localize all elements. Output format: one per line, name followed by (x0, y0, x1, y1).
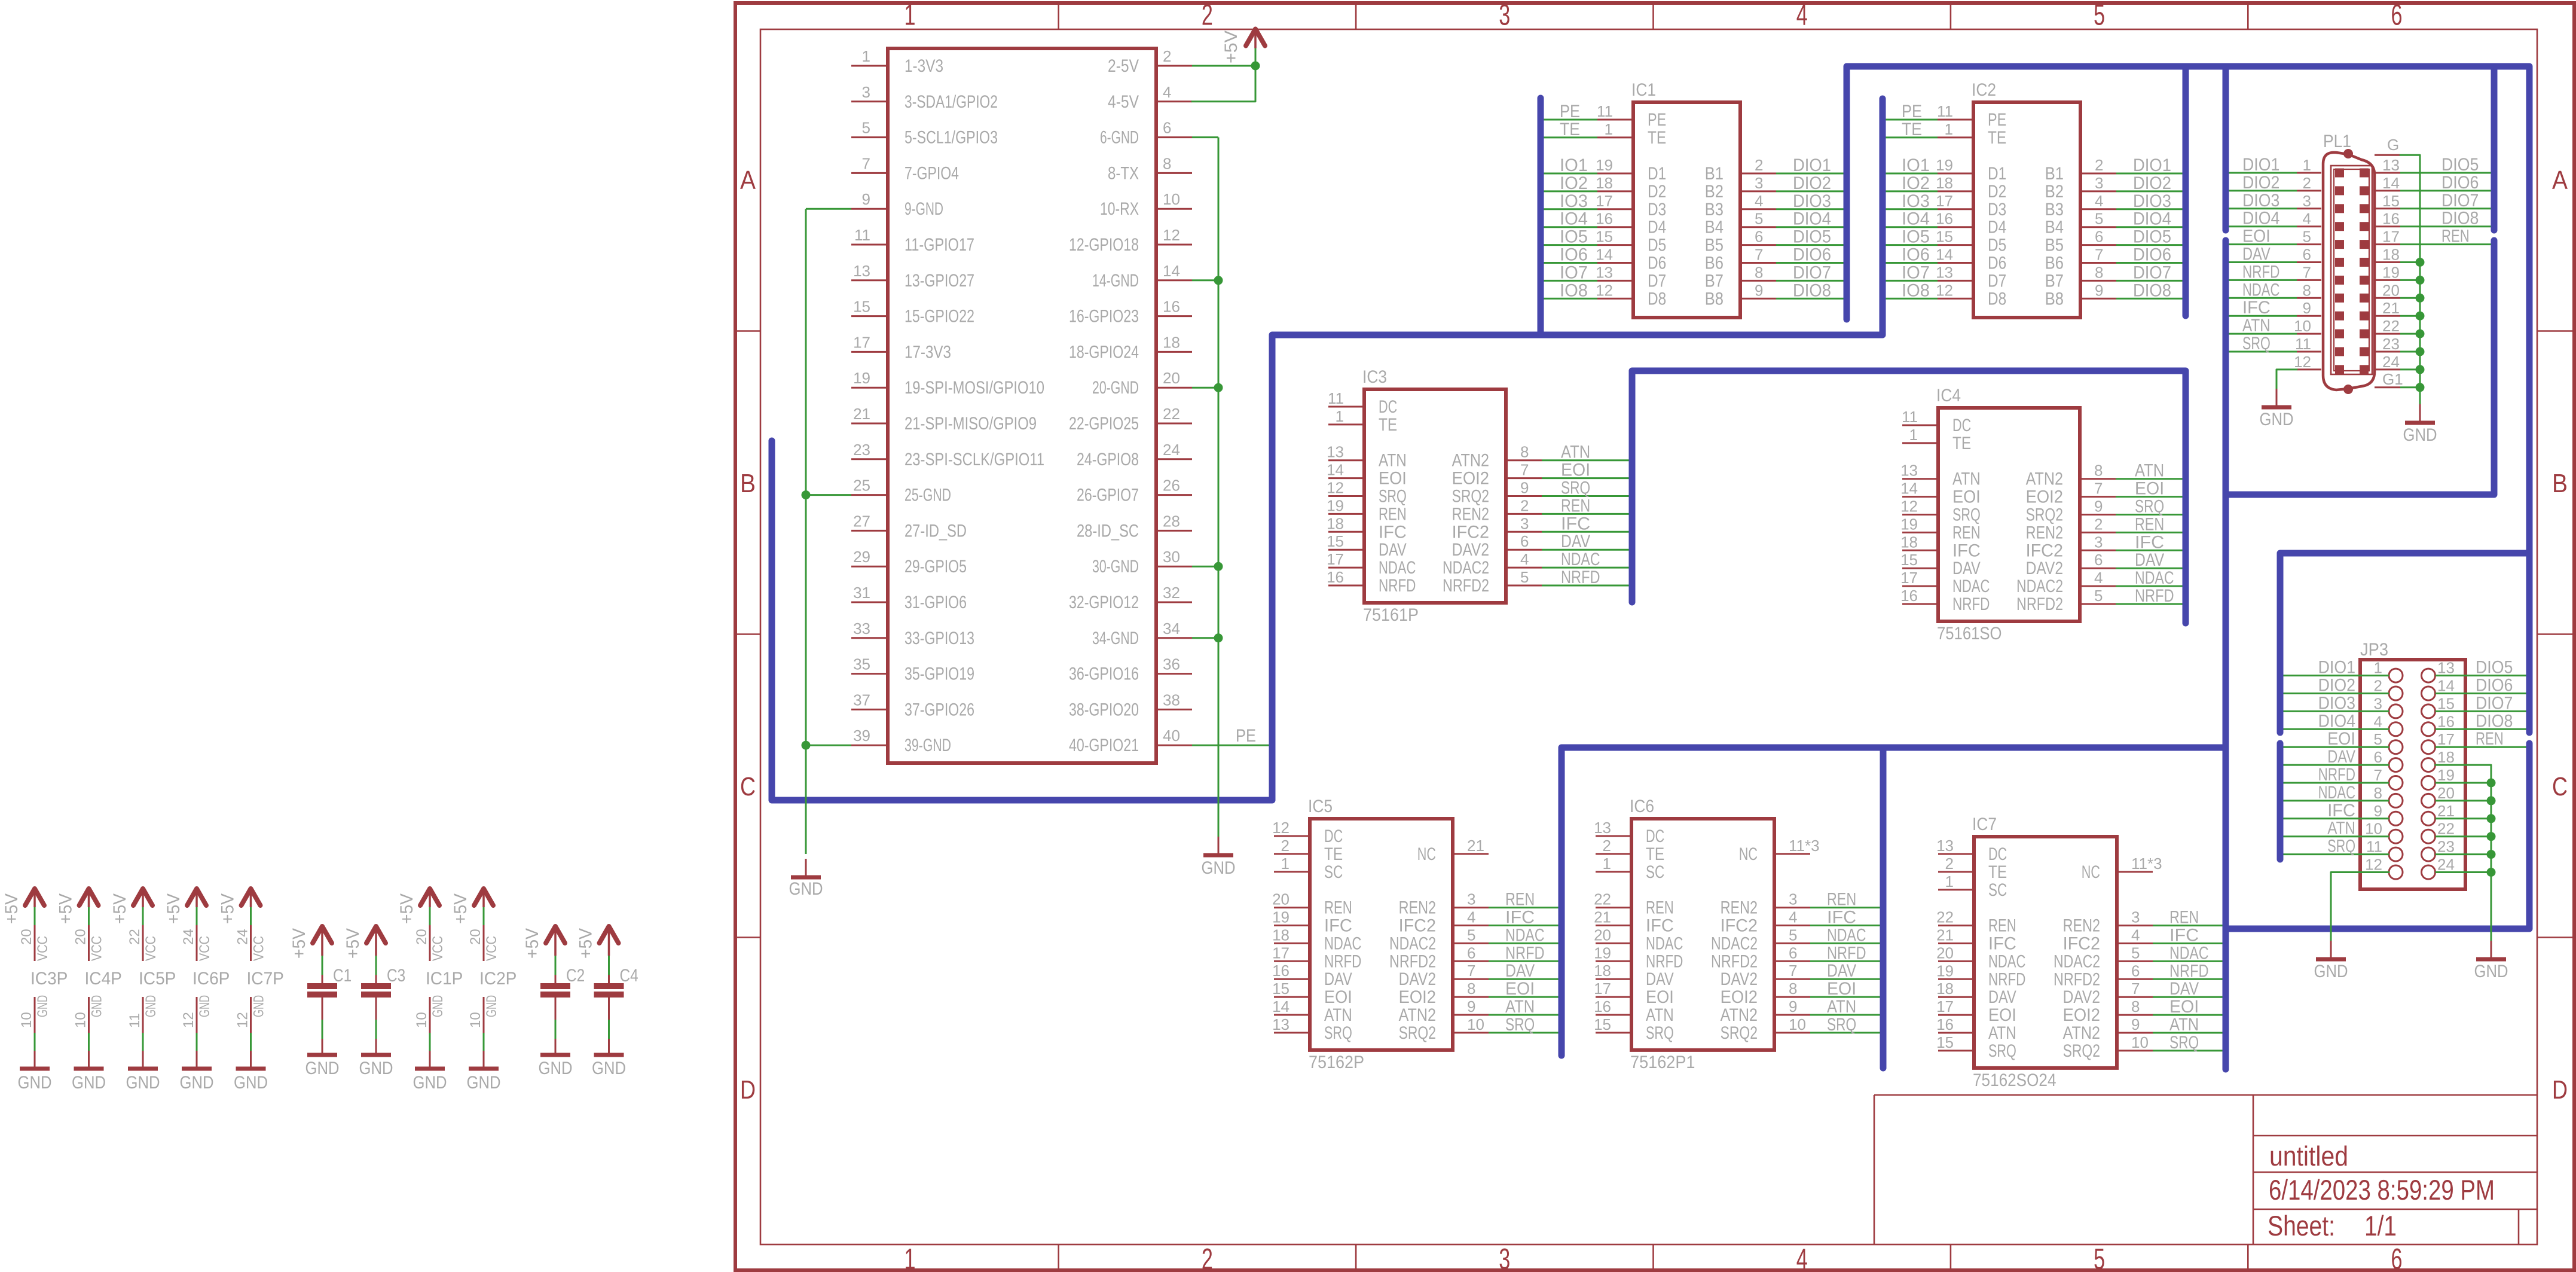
svg-text:B3: B3 (1705, 200, 1724, 219)
junction JP3 pin 24 (2487, 868, 2496, 877)
IC IC7: GPIB controller transceiver 75162SO24 (1936, 815, 2162, 1090)
svg-text:DIO5: DIO5 (2476, 658, 2513, 678)
svg-text:GND: GND (35, 995, 51, 1017)
svg-text:NDAC: NDAC (1952, 576, 1990, 596)
svg-text:14: 14 (2437, 677, 2455, 695)
svg-text:19: 19 (1596, 156, 1613, 174)
svg-text:21: 21 (2437, 802, 2455, 820)
svg-text:IC5: IC5 (1308, 797, 1333, 816)
wire IO1 to IC2 (1886, 173, 1938, 175)
svg-text:18: 18 (1327, 514, 1344, 532)
svg-text:8: 8 (1755, 263, 1763, 281)
wire PE to IC1 (1544, 119, 1598, 121)
svg-text:IFC: IFC (1561, 514, 1590, 533)
svg-text:11: 11 (1328, 389, 1344, 407)
svg-text:21: 21 (1467, 837, 1484, 855)
svg-text:31-GPIO6: 31-GPIO6 (904, 593, 967, 612)
svg-text:Sheet:: Sheet: (2268, 1210, 2335, 1242)
svg-text:SRQ2: SRQ2 (1452, 487, 1489, 507)
svg-text:6: 6 (1163, 119, 1171, 137)
bus JP3 left lower drop (2277, 743, 2284, 859)
svg-text:B8: B8 (1705, 289, 1724, 309)
svg-text:IC2: IC2 (1972, 80, 1996, 100)
svg-text:1: 1 (904, 1243, 916, 1272)
wire JP3 pin 24 to ground chain (2436, 871, 2491, 873)
junction GND at pin 20 (1214, 383, 1223, 392)
wire TE to IC1 (1544, 136, 1598, 138)
svg-text:ATN2: ATN2 (1399, 1005, 1436, 1025)
svg-text:12: 12 (235, 1012, 251, 1028)
svg-text:EOI: EOI (1379, 469, 1407, 489)
svg-text:10: 10 (2294, 317, 2311, 335)
svg-text:NRFD: NRFD (1324, 951, 1361, 971)
svg-text:7: 7 (862, 154, 870, 172)
svg-text:10: 10 (1789, 1015, 1806, 1033)
svg-text:13: 13 (1272, 1015, 1289, 1033)
svg-text:6: 6 (1520, 532, 1529, 550)
ground below RPi left (789, 859, 823, 899)
svg-text:4: 4 (2374, 712, 2382, 730)
svg-text:3: 3 (2374, 694, 2382, 712)
svg-text:19: 19 (1327, 496, 1344, 514)
svg-text:18: 18 (1936, 980, 1954, 998)
wire GND RPi pin 14 (1192, 279, 1218, 281)
junction PL1 pin 18 (2416, 258, 2425, 267)
svg-text:6: 6 (1755, 228, 1763, 246)
svg-text:19: 19 (1936, 156, 1953, 174)
svg-text:ATN2: ATN2 (2026, 469, 2063, 489)
svg-text:C1: C1 (333, 966, 352, 986)
wire NDAC from IC7 (2153, 960, 2223, 962)
svg-text:33: 33 (853, 620, 870, 637)
svg-text:SRQ2: SRQ2 (1399, 1023, 1436, 1043)
svg-text:9: 9 (2094, 498, 2103, 515)
wire SRQ to PL1 pin 11 (2229, 351, 2297, 353)
svg-text:19: 19 (1594, 944, 1611, 962)
svg-text:D6: D6 (1988, 254, 2006, 273)
svg-text:TE: TE (1560, 120, 1580, 139)
power symbol group IC4P: +5V to VCC pin 20, GND pin 10 (56, 889, 122, 1093)
wire SRQ from IC3 (1542, 495, 1629, 497)
svg-text:15: 15 (853, 298, 870, 316)
svg-text:NRFD: NRFD (1646, 951, 1683, 971)
bus outer right lower + under JP3 (2226, 743, 2529, 929)
svg-text:4: 4 (1163, 83, 1171, 101)
svg-text:17: 17 (1272, 944, 1289, 962)
svg-text:SRQ: SRQ (2169, 1033, 2199, 1053)
svg-text:IFC: IFC (2169, 926, 2199, 945)
svg-text:75161SO: 75161SO (1937, 624, 2002, 643)
svg-text:22: 22 (2382, 317, 2400, 335)
bus: IC1 right riser / top run / outer right drop (1847, 66, 2529, 733)
svg-text:IO4: IO4 (1560, 209, 1588, 229)
svg-text:DAV: DAV (1827, 961, 1856, 981)
svg-text:6: 6 (2095, 228, 2103, 246)
svg-text:13: 13 (1596, 263, 1613, 281)
junction +5V (1251, 62, 1260, 71)
power symbol group IC3P: +5V to VCC pin 20, GND pin 10 (2, 889, 68, 1093)
svg-text:5: 5 (2094, 587, 2103, 605)
svg-text:B2: B2 (1705, 182, 1724, 202)
wire PE to IC2 (1886, 119, 1938, 121)
svg-text:12: 12 (1900, 498, 1918, 515)
svg-text:2: 2 (2094, 515, 2103, 533)
svg-text:14: 14 (1900, 480, 1918, 498)
svg-text:D8: D8 (1648, 289, 1666, 309)
svg-text:4: 4 (1796, 1243, 1808, 1272)
svg-text:SRQ: SRQ (1561, 478, 1590, 498)
svg-text:11-GPIO17: 11-GPIO17 (904, 235, 974, 255)
svg-text:3: 3 (1499, 1243, 1510, 1272)
junction PL1 pin 22 (2416, 330, 2425, 338)
svg-text:10: 10 (73, 1012, 89, 1028)
ground at PL1 pin 12 (2260, 389, 2294, 429)
wire IO3 to IC2 (1886, 208, 1938, 210)
bus: PL1 left lower drop (2223, 240, 2229, 1069)
svg-text:DIO6: DIO6 (2133, 245, 2171, 265)
junction JP3 pin 22 (2487, 832, 2496, 841)
wire PL1 G1 to shield chain (2400, 386, 2420, 388)
wire DIO5 from PL1 pin 13 (2400, 172, 2491, 174)
svg-text:ATN2: ATN2 (2063, 1023, 2100, 1043)
wire DIO5 from IC2 (2116, 244, 2183, 246)
svg-text:5: 5 (1520, 568, 1529, 586)
svg-text:+5V: +5V (218, 893, 238, 924)
svg-text:PE: PE (1236, 726, 1256, 746)
svg-text:2: 2 (1755, 156, 1763, 174)
svg-text:C2: C2 (566, 966, 585, 986)
svg-text:D5: D5 (1988, 236, 2006, 255)
svg-text:26: 26 (1163, 477, 1180, 495)
svg-text:VCC: VCC (143, 936, 159, 961)
svg-text:VCC: VCC (251, 936, 267, 961)
svg-text:1: 1 (862, 47, 870, 65)
wire DIO8 from IC1 (1776, 298, 1844, 300)
svg-text:3: 3 (1789, 890, 1797, 908)
svg-text:4: 4 (1467, 908, 1475, 926)
svg-text:3: 3 (2131, 908, 2140, 926)
svg-text:10-RX: 10-RX (1100, 199, 1139, 219)
svg-text:IFC2: IFC2 (2026, 541, 2063, 560)
svg-text:18: 18 (1594, 962, 1611, 980)
svg-text:21: 21 (2382, 299, 2400, 317)
svg-text:NDAC: NDAC (1988, 951, 2025, 971)
svg-text:D5: D5 (1648, 236, 1666, 255)
wire IFC from IC4 (2116, 550, 2183, 551)
svg-text:NRFD: NRFD (1988, 969, 2025, 989)
svg-text:18: 18 (2382, 246, 2400, 264)
svg-text:NDAC: NDAC (1561, 550, 1600, 569)
svg-text:ATN: ATN (1324, 1005, 1352, 1025)
svg-text:IC7: IC7 (1972, 815, 1997, 834)
svg-text:13: 13 (2437, 659, 2455, 677)
svg-text:5: 5 (2095, 210, 2103, 228)
svg-text:10: 10 (467, 1012, 484, 1028)
svg-text:37: 37 (853, 691, 870, 709)
svg-text:1: 1 (904, 0, 916, 32)
wire NRFD to JP3 pin 7 (2284, 782, 2389, 784)
svg-text:DC: DC (1646, 826, 1664, 846)
svg-text:DAV2: DAV2 (2063, 987, 2100, 1007)
svg-text:7: 7 (1520, 461, 1529, 479)
svg-text:2: 2 (1603, 837, 1611, 855)
svg-text:17-3V3: 17-3V3 (904, 342, 951, 362)
svg-text:75161P: 75161P (1363, 605, 1419, 625)
svg-text:3: 3 (2095, 174, 2103, 192)
svg-text:VCC: VCC (35, 936, 51, 961)
wire SRQ from IC4 (2116, 514, 2183, 515)
svg-text:8: 8 (1520, 443, 1529, 461)
svg-text:D4: D4 (1988, 218, 2006, 237)
wire GND to JP3 pin 12 (2331, 873, 2389, 953)
svg-text:SRQ: SRQ (2242, 334, 2271, 353)
svg-text:75162P: 75162P (1309, 1053, 1364, 1072)
svg-text:SRQ: SRQ (1988, 1041, 2016, 1061)
wire ATN to JP3 pin 10 (2284, 835, 2389, 837)
svg-text:28: 28 (1163, 512, 1180, 530)
svg-text:5: 5 (862, 119, 870, 137)
wire REN from IC4 (2116, 532, 2183, 533)
wire ATN to PL1 pin 10 (2229, 333, 2297, 335)
svg-text:DIO1: DIO1 (2242, 155, 2279, 175)
svg-text:16-GPIO23: 16-GPIO23 (1069, 307, 1139, 327)
wire PL1 pin 24 to shield chain (2400, 368, 2420, 370)
svg-text:18: 18 (1900, 533, 1918, 551)
+5V power symbol at RPi (1246, 29, 1265, 48)
wire SRQ to JP3 pin 11 (2284, 853, 2389, 855)
junction GND at pin 39 (802, 741, 811, 750)
svg-text:GND: GND (430, 995, 446, 1017)
svg-text:D7: D7 (1648, 271, 1666, 291)
wire DIO7 from IC2 (2116, 280, 2183, 282)
svg-text:18: 18 (2437, 748, 2455, 766)
wire +5V from RPi pin 2 (1192, 65, 1255, 67)
svg-text:20: 20 (1594, 926, 1611, 944)
svg-text:NDAC2: NDAC2 (2016, 576, 2063, 596)
svg-text:DIO4: DIO4 (2318, 711, 2355, 731)
svg-text:REN: REN (2135, 514, 2164, 534)
svg-text:IC6P: IC6P (192, 969, 230, 989)
svg-text:GND: GND (413, 1073, 447, 1093)
svg-text:1: 1 (1909, 426, 1918, 444)
svg-text:JP3: JP3 (2360, 640, 2388, 660)
wire DIO8 from JP3 pin 16 (2436, 728, 2526, 730)
svg-text:B5: B5 (2045, 236, 2064, 255)
svg-text:17: 17 (1900, 569, 1918, 587)
svg-text:DIO5: DIO5 (1793, 227, 1831, 247)
svg-text:DIO5: DIO5 (2133, 227, 2171, 247)
svg-text:SRQ2: SRQ2 (2063, 1041, 2100, 1061)
svg-text:VCC: VCC (89, 936, 105, 961)
svg-text:SC: SC (1324, 862, 1343, 882)
svg-text:TE: TE (1988, 862, 2007, 882)
svg-text:C: C (740, 772, 756, 801)
junction PL1 G1 (2416, 383, 2425, 392)
svg-text:B8: B8 (2045, 289, 2064, 309)
wire NRFD from IC5 (1489, 960, 1559, 962)
svg-text:7: 7 (1755, 246, 1763, 264)
svg-text:EOI: EOI (2135, 479, 2164, 499)
svg-text:16: 16 (1936, 1015, 1954, 1033)
svg-text:DC: DC (1379, 397, 1397, 417)
junction PL1 pin 21 (2416, 312, 2425, 321)
svg-text:B4: B4 (2045, 218, 2064, 237)
svg-text:D2: D2 (1648, 182, 1666, 202)
svg-text:SC: SC (1988, 880, 2007, 900)
bus: IC5 right riser + middle run (1562, 748, 2226, 1056)
svg-text:REN: REN (1324, 898, 1352, 918)
wire DAV from IC5 (1489, 978, 1559, 980)
svg-text:IFC2: IFC2 (2063, 934, 2100, 954)
svg-text:NRFD2: NRFD2 (2054, 969, 2100, 989)
svg-text:EOI: EOI (2242, 227, 2271, 246)
svg-text:13: 13 (853, 262, 870, 280)
svg-text:18: 18 (1272, 926, 1289, 944)
svg-text:20: 20 (19, 929, 35, 945)
wire DIO7 from JP3 pin 15 (2436, 710, 2526, 712)
svg-text:DAV: DAV (1379, 540, 1407, 560)
wire +5V from RPi pin 4 (1192, 66, 1255, 102)
svg-text:REN: REN (2441, 227, 2470, 246)
ground at JP3 pin 12 (2314, 941, 2348, 981)
svg-text:13: 13 (2382, 156, 2400, 174)
bus drop to PL1 inner right (upper) (2491, 66, 2498, 230)
svg-text:PL1: PL1 (2323, 132, 2351, 151)
svg-text:+5V: +5V (2, 893, 22, 924)
svg-text:20: 20 (1272, 890, 1289, 908)
junction PL1 pin 24 (2416, 365, 2425, 374)
svg-text:+5V: +5V (164, 893, 184, 924)
svg-text:GND: GND (180, 1073, 214, 1093)
svg-text:26-GPIO7: 26-GPIO7 (1077, 486, 1139, 505)
svg-text:C: C (2552, 772, 2568, 801)
wire IO5 to IC1 (1544, 244, 1598, 246)
svg-text:DAV2: DAV2 (1452, 540, 1489, 560)
svg-text:14: 14 (1272, 998, 1289, 1015)
svg-text:30-GND: 30-GND (1092, 557, 1139, 576)
svg-text:24-GPIO8: 24-GPIO8 (1077, 450, 1139, 469)
wire G/shield chain at PL1 (2400, 155, 2420, 411)
svg-text:6: 6 (1789, 944, 1797, 962)
svg-text:7: 7 (2131, 980, 2140, 998)
wire DIO5 from IC1 (1776, 244, 1844, 246)
svg-text:REN: REN (1505, 890, 1535, 910)
svg-text:24: 24 (1163, 441, 1180, 459)
svg-text:VCC: VCC (430, 936, 446, 961)
svg-text:DAV: DAV (1324, 969, 1352, 989)
wire DAV from IC3 (1542, 549, 1629, 551)
svg-text:12: 12 (1596, 281, 1613, 299)
svg-text:REN2: REN2 (1399, 898, 1436, 918)
svg-text:9: 9 (1789, 998, 1797, 1015)
svg-text:4: 4 (2303, 210, 2311, 228)
wire IFC from IC7 (2153, 942, 2223, 944)
svg-text:34-GND: 34-GND (1092, 629, 1139, 648)
svg-text:NDAC: NDAC (2135, 568, 2174, 588)
svg-text:+5V: +5V (56, 893, 76, 924)
wire IO4 to IC1 (1544, 226, 1598, 228)
IC IC2: GPIB data transceiver (1936, 80, 2116, 318)
wire DIO3 from IC1 (1776, 208, 1844, 210)
wire ATN from IC7 (2153, 1032, 2223, 1034)
svg-text:75162SO24: 75162SO24 (1973, 1070, 2056, 1090)
wire IO7 to IC2 (1886, 280, 1938, 282)
IC IC5: GPIB controller transceiver 75162P (1272, 797, 1489, 1072)
svg-text:ATN: ATN (1988, 1023, 2016, 1043)
wire IO5 to IC2 (1886, 244, 1938, 246)
svg-text:4: 4 (2095, 192, 2103, 210)
junction GND at pin 25 (802, 490, 811, 499)
svg-text:GND: GND (18, 1073, 52, 1093)
svg-text:16: 16 (1936, 210, 1953, 228)
wire DIO1 from IC1 (1776, 173, 1844, 175)
wire NRFD from IC4 (2116, 603, 2183, 605)
wire DIO3 from IC2 (2116, 208, 2183, 210)
ground below RPi right (1202, 837, 1236, 878)
svg-text:DIO6: DIO6 (2441, 173, 2479, 193)
svg-text:19: 19 (1272, 908, 1289, 926)
svg-text:15: 15 (1900, 551, 1918, 569)
svg-text:5: 5 (2374, 730, 2382, 748)
svg-text:8: 8 (1163, 154, 1171, 172)
svg-text:IC5P: IC5P (139, 969, 176, 989)
svg-text:DIO3: DIO3 (2318, 693, 2355, 713)
svg-text:NDAC: NDAC (2318, 783, 2355, 803)
wire PL1 pin 19 to shield chain (2400, 279, 2420, 281)
svg-text:EOI: EOI (1646, 987, 1674, 1007)
svg-text:13: 13 (1594, 819, 1611, 837)
wire DAV from IC7 (2153, 996, 2223, 998)
svg-text:11: 11 (1902, 408, 1918, 426)
wire DIO7 from IC1 (1776, 280, 1844, 282)
svg-text:+5V: +5V (343, 928, 363, 959)
svg-text:REN2: REN2 (2063, 916, 2100, 936)
svg-text:13: 13 (1900, 462, 1918, 480)
svg-text:NRFD: NRFD (2135, 586, 2174, 606)
svg-text:13: 13 (1327, 443, 1344, 461)
bus under PL1 + inner right lower (2226, 240, 2494, 495)
svg-text:G: G (2387, 136, 2399, 154)
svg-text:ATN: ATN (1561, 443, 1590, 462)
svg-text:1: 1 (1945, 120, 1953, 138)
svg-text:PE: PE (1560, 102, 1580, 121)
svg-text:23: 23 (2437, 838, 2455, 856)
svg-text:DIO8: DIO8 (2441, 209, 2479, 228)
svg-text:REN2: REN2 (1452, 504, 1489, 524)
svg-text:21: 21 (1594, 908, 1611, 926)
wire ATN from IC4 (2116, 478, 2183, 480)
svg-text:8: 8 (2131, 998, 2140, 1015)
wire GND vertical chain left of RPi (805, 209, 807, 854)
svg-text:GND: GND (2260, 410, 2294, 429)
svg-text:11: 11 (2295, 335, 2311, 353)
svg-text:15: 15 (2437, 694, 2455, 712)
svg-text:DIO2: DIO2 (2133, 173, 2171, 193)
wire DIO4 from IC1 (1776, 226, 1844, 228)
svg-text:1: 1 (1603, 855, 1611, 873)
wire PL1 pin 22 to shield chain (2400, 333, 2420, 335)
svg-text:38-GPIO20: 38-GPIO20 (1069, 700, 1139, 719)
svg-text:B6: B6 (2045, 254, 2064, 273)
svg-text:DIO7: DIO7 (2133, 263, 2171, 282)
svg-text:13: 13 (1936, 263, 1953, 281)
wire JP3 pin 23 to ground chain (2436, 853, 2491, 855)
svg-text:12: 12 (2294, 353, 2311, 371)
svg-text:6-GND: 6-GND (1100, 128, 1139, 148)
svg-text:1: 1 (1336, 407, 1344, 425)
svg-text:22: 22 (1594, 890, 1611, 908)
capacitor C3: +5V to GND decoupling (343, 926, 405, 1078)
